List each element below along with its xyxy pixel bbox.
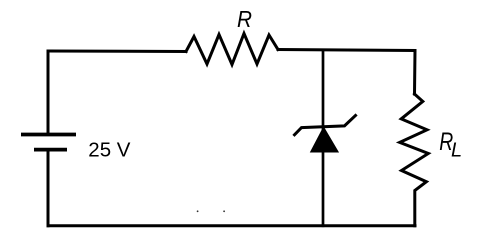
zener diode D1 cathode bar [295, 116, 356, 135]
speck dot left [197, 210, 199, 212]
wire right vertical upper [413, 51, 417, 95]
svg-text:R: R [237, 6, 252, 32]
zener diode D1 anode triangle [311, 127, 339, 152]
svg-text:25 V: 25 V [88, 139, 130, 162]
speck dot right [223, 210, 225, 212]
resistor R zigzag [186, 34, 278, 65]
svg-text:L: L [451, 140, 462, 162]
battery V1 short plate [34, 148, 67, 152]
wire top-left horizontal [48, 50, 186, 54]
wire left vertical lower [47, 152, 50, 226]
wire zener branch vertical [322, 51, 325, 226]
resistor RL zigzag [400, 94, 429, 226]
wire bottom horizontal [48, 224, 415, 227]
wire left vertical upper [47, 51, 50, 133]
wire top-right horizontal [278, 50, 415, 51]
battery V1 long plate [21, 133, 76, 137]
